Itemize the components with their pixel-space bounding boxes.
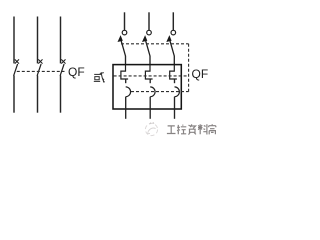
breaker QF left-form pole 1 bottom wire [13,76,15,113]
breaker QF box-form pole 2 wire to case [149,56,151,65]
breaker QF box-form pole 1 thermal release hook [121,65,128,79]
breaker QF box-form pole 3 blade [170,41,174,56]
label QF (left symbol) [68,65,85,79]
label 或 (or) hand-drawn glyph [94,72,105,82]
breaker QF box-form pole 2 magnetic release arc [150,87,155,97]
breaker QF box-form pole 2 top wire [148,12,150,30]
breaker QF box-form blade linkage (dashed) [121,43,189,45]
breaker QF box-form pole 1 wire [125,79,127,83]
svg-text:QF: QF [68,65,85,79]
breaker QF left-form pole 3 cross mark [61,59,65,63]
breaker QF box-form pole 2 thermal release hook [145,65,152,79]
watermark logo circle [145,122,157,135]
breaker QF box-form pole 3 top wire [172,12,174,30]
breaker QF box-form pole 2 wire [149,79,151,83]
breaker QF box-form arc linkage (dashed) [131,91,189,93]
breaker QF left-form pole 2 top wire [37,17,39,64]
svg-text:QF: QF [192,67,209,81]
breaker QF box-form pole 1 blade wedge [118,35,123,42]
breaker QF left-form pole 3 top wire [60,17,62,64]
breaker QF box-form pole 3 wire [174,79,176,83]
breaker QF box-form pole 1 blade [121,41,125,56]
breaker QF box-form linkage vertical (dashed) [188,44,190,92]
breaker QF box-form pole 3 blade wedge [166,35,171,42]
label QF (box symbol) [192,67,209,81]
breaker QF box-form pole 2 terminal circle [147,30,152,35]
breaker QF left-form mechanical linkage (dashed) [17,70,65,72]
breaker QF box-form pole 3 bottom wire [174,97,176,119]
breaker QF left-form pole 2 blade [37,64,41,76]
breaker QF box-form pole 2 bottom wire [149,97,151,119]
breaker QF box-form pole 3 thermal release hook [170,65,177,79]
breaker QF box-form pole 3 magnetic release arc [175,87,180,97]
breaker QF left-form pole 2 bottom wire [37,76,39,113]
breaker QF box-form pole 3 terminal circle [171,30,176,35]
breaker QF box-form pole 1 magnetic release arc [126,87,131,97]
breaker QF box-form pole 2 blade wedge [142,35,147,42]
watermark text 工控资料窝 hand-drawn [167,124,216,134]
breaker QF box-form pole 1 wire to case [125,56,127,65]
breaker QF box-form pole 3 wire to case [173,56,175,65]
breaker QF box-form pole 1 top wire [124,12,126,30]
breaker QF box-form hook linkage (dashed) [114,75,189,77]
breaker QF box-form pole 1 terminal circle [122,30,127,35]
breaker QF left-form pole 1 top wire [13,17,15,64]
breaker QF left-form pole 2 cross mark [38,59,42,63]
breaker QF box-form pole 2 blade [146,41,150,56]
breaker QF left-form pole 1 cross mark [15,59,19,63]
breaker QF left-form pole 3 bottom wire [60,76,62,113]
breaker QF box-form pole 1 bottom wire [125,97,127,119]
breaker QF box-form case outline [113,65,181,109]
breaker QF left-form pole 3 blade [60,64,64,76]
breaker QF left-form pole 1 blade [14,64,18,76]
